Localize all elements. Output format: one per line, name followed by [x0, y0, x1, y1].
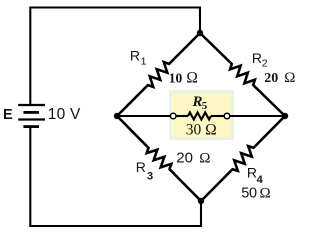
node: left junction — [114, 113, 120, 119]
svg-text:50: 50 — [241, 185, 257, 201]
R5 right terminal circle — [224, 113, 230, 119]
R5 left terminal circle — [170, 113, 176, 119]
wire: R5 left lead — [176, 115, 188, 117]
node: bottom junction — [198, 198, 204, 204]
svg-text:1: 1 — [141, 55, 147, 67]
svg-text:20: 20 — [176, 150, 193, 167]
svg-text:10: 10 — [169, 70, 183, 85]
battery E: short plate — [23, 111, 39, 114]
svg-text:E: E — [3, 107, 13, 123]
resistor R2 (top node to right vertex) — [200, 33, 285, 116]
node: right junction — [282, 113, 288, 119]
svg-text:30 Ω: 30 Ω — [186, 121, 217, 138]
svg-text:20: 20 — [264, 71, 278, 86]
svg-text:10 V: 10 V — [48, 106, 81, 123]
battery E: long plate (top) — [18, 104, 45, 106]
svg-text:R: R — [252, 50, 262, 66]
svg-text:R: R — [136, 159, 146, 175]
svg-text:Ω: Ω — [284, 70, 295, 86]
wire: R5 right terminal to right vertex — [230, 115, 285, 117]
svg-text:R: R — [247, 165, 257, 181]
svg-text:Ω: Ω — [260, 185, 271, 201]
resistor R1 (left vertex to top node) — [117, 33, 200, 116]
wire: R5 right lead — [211, 115, 224, 117]
svg-text:3: 3 — [147, 171, 153, 183]
wire: bottom loop (battery bottom to bottom node) — [30, 128, 201, 226]
svg-text:2: 2 — [262, 58, 268, 70]
node: top junction — [197, 30, 203, 36]
svg-text:Ω: Ω — [186, 69, 198, 86]
svg-text:4: 4 — [257, 174, 264, 186]
resistor R3 (left vertex to bottom node) — [117, 116, 201, 201]
resistor R4 (right vertex to bottom node) — [201, 116, 285, 201]
svg-text:5: 5 — [202, 100, 208, 112]
resistor R5 zigzag — [188, 113, 211, 120]
battery E: short plate (bottom) — [23, 125, 39, 128]
wire: top loop (battery top to top node) — [30, 8, 200, 105]
highlight box around R5 — [171, 92, 233, 139]
svg-text:Ω: Ω — [199, 151, 210, 167]
svg-text:R: R — [130, 48, 140, 64]
battery E: long plate — [18, 118, 45, 120]
wire: left vertex to R5 left terminal — [117, 115, 171, 117]
